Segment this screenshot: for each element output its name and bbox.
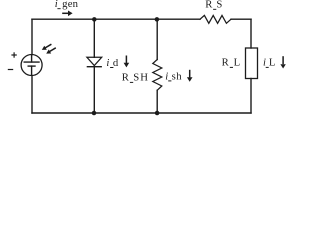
current source internal plates: [31, 55, 33, 62]
junction dot bottom shunt node: [155, 111, 160, 116]
current source U1 circle: [21, 55, 42, 76]
resistor R_SH zigzag: [153, 60, 162, 91]
diode D1 branch wire upper: [93, 19, 95, 57]
diode D1 branch wire lower: [93, 67, 95, 113]
svg-text:RSH: RSH: [122, 72, 148, 84]
shunt branch wire lower: [156, 90, 158, 113]
current arrow i_gen: [62, 11, 72, 17]
wire top-left segment: [32, 18, 200, 20]
junction dot bottom diode node: [92, 111, 97, 116]
svg-text:iL: iL: [263, 57, 275, 69]
wire bottom: [32, 112, 251, 114]
resistor R_S zigzag: [200, 15, 231, 23]
svg-text:ish: ish: [165, 70, 182, 82]
current arrow i_d: [124, 56, 130, 68]
shunt branch wire upper: [156, 19, 158, 59]
junction dot top diode node: [92, 17, 97, 22]
wire right side upper: [250, 19, 252, 48]
light arrow upper into source: [42, 44, 52, 50]
resistor R_L box: [246, 48, 258, 79]
diode D1 triangle: [87, 57, 102, 65]
wire left lower: [31, 76, 33, 113]
light arrow lower into source: [46, 48, 56, 54]
current arrow i_sh: [187, 70, 193, 82]
wire left upper: [31, 19, 33, 54]
wire right side lower: [250, 79, 252, 114]
wire top-right segment: [231, 18, 251, 20]
diode D1 cathode bar: [87, 66, 101, 68]
plus sign of source: [11, 52, 16, 57]
minus sign of source: [8, 69, 13, 71]
current arrow i_L: [280, 56, 285, 68]
junction dot top shunt node: [155, 17, 160, 22]
